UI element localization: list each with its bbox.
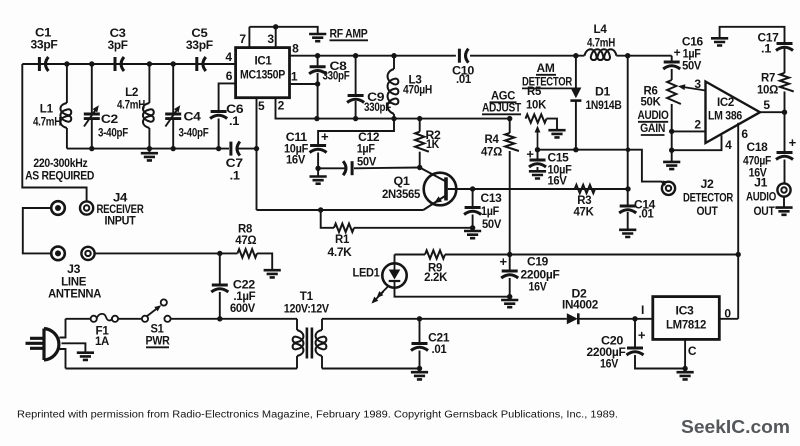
node R6-pin4 — [669, 148, 674, 153]
svg-text:C: C — [688, 344, 697, 358]
svg-text:50V: 50V — [357, 156, 377, 168]
resistor R4 — [505, 133, 519, 151]
svg-text:+: + — [321, 129, 329, 144]
svg-text:+: + — [674, 45, 681, 59]
svg-text:1A: 1A — [95, 336, 109, 348]
svg-text:MC1350P: MC1350P — [240, 70, 286, 82]
wire Q1 emitter — [423, 196, 445, 210]
capacitor C2 variable — [84, 104, 101, 127]
svg-text:C12: C12 — [358, 132, 379, 144]
wire J2 nub — [661, 181, 665, 185]
svg-text:C13: C13 — [481, 193, 502, 205]
wire R5 right — [547, 119, 558, 130]
svg-text:C4: C4 — [184, 112, 202, 124]
svg-text:3pF: 3pF — [108, 40, 128, 52]
regulator IC3 LM7812 box — [653, 297, 720, 340]
wire LED to R9 — [395, 254, 426, 256]
capacitor C17 — [776, 44, 793, 51]
wire C9 column — [355, 56, 357, 95]
connector J4 jack — [80, 201, 93, 214]
svg-text:IN4002: IN4002 — [562, 300, 598, 312]
wire F1 to S1 — [118, 318, 142, 320]
resistor R9 — [425, 250, 445, 258]
capacitor C22 — [211, 285, 228, 292]
wire pin2 path — [276, 98, 317, 119]
wire IC3 common — [684, 339, 686, 368]
svg-text:GAIN: GAIN — [640, 123, 665, 135]
svg-text:AUDIO: AUDIO — [638, 110, 669, 122]
wire C6 lead — [218, 119, 220, 149]
op-amp IC1 MC1350P box — [236, 48, 290, 98]
wire bus drop to J4 — [22, 64, 86, 201]
svg-text:LM7812: LM7812 — [666, 320, 706, 332]
node vrail-C8 — [314, 116, 319, 121]
svg-text:C6: C6 — [226, 104, 243, 116]
ground tank — [141, 153, 158, 160]
wire J1 to ground — [783, 197, 785, 208]
wire pin3 to ground — [276, 27, 318, 34]
transformer T1 secondary — [321, 319, 323, 330]
wire detector line — [538, 150, 662, 182]
svg-text:16V: 16V — [529, 282, 548, 294]
svg-text:LM 386: LM 386 — [708, 111, 742, 123]
wire plug nose to ground — [62, 343, 86, 352]
node vrail-AGC — [507, 116, 512, 121]
svg-text:1K: 1K — [426, 139, 440, 151]
wire D1 leads — [575, 56, 577, 88]
resistor R6 potentiometer — [667, 80, 681, 104]
wire V+ rail — [317, 118, 510, 120]
svg-text:2: 2 — [278, 99, 285, 113]
wire power bottom — [66, 368, 298, 370]
svg-text:50V: 50V — [682, 61, 702, 73]
ground C11 — [310, 177, 327, 184]
wire J3 to R8 — [95, 252, 220, 254]
underline GAIN — [641, 134, 665, 136]
node rail-L3 — [391, 53, 396, 58]
wire IC3 out — [719, 318, 738, 320]
svg-text:AUDIO: AUDIO — [746, 192, 776, 204]
svg-text:R3: R3 — [577, 195, 591, 207]
svg-text:R7: R7 — [761, 73, 775, 85]
connector J1 jack — [777, 183, 790, 196]
svg-text:6: 6 — [226, 69, 233, 83]
svg-text:2.2K: 2.2K — [424, 272, 448, 284]
svg-text:.1: .1 — [761, 43, 772, 55]
op-amp IC2 triangle — [706, 82, 761, 144]
svg-text:ADJUST: ADJUST — [482, 103, 521, 115]
svg-text:4: 4 — [725, 138, 732, 152]
svg-text:L2: L2 — [125, 87, 138, 99]
wire R9 to C19 — [445, 254, 510, 256]
node det-D1 — [573, 147, 578, 152]
svg-text:2N3565: 2N3565 — [382, 189, 421, 201]
capacitor C13 — [464, 208, 481, 215]
svg-text:10K: 10K — [526, 100, 547, 112]
svg-text:10Ω: 10Ω — [757, 84, 778, 96]
connector J3 plug — [51, 247, 65, 261]
capacitor C15 — [529, 160, 546, 167]
ground plug — [77, 353, 94, 360]
svg-text:C21: C21 — [428, 333, 450, 345]
svg-text:IC3: IC3 — [676, 306, 694, 318]
svg-text:1N914B: 1N914B — [586, 100, 622, 112]
underline RF AMP — [330, 39, 369, 41]
connector J4 plug — [51, 201, 65, 215]
svg-text:16V: 16V — [600, 359, 619, 371]
svg-text:C16: C16 — [682, 37, 703, 49]
svg-text:R4: R4 — [485, 134, 500, 146]
svg-text:C11: C11 — [286, 132, 308, 144]
capacitor C11 — [310, 146, 327, 153]
wire L1 leads — [66, 64, 68, 103]
resistor R5 potentiometer — [526, 114, 547, 122]
svg-text:C2: C2 — [101, 114, 118, 126]
wire C22 lead — [219, 253, 221, 284]
wire C12 line — [318, 167, 345, 169]
wire plug top riser — [60, 319, 66, 338]
svg-text:+: + — [789, 135, 797, 150]
svg-text:SeekIC.com: SeekIC.com — [681, 417, 790, 437]
wire C11 lead — [317, 153, 319, 177]
node R6-pin2 — [669, 129, 674, 134]
svg-text:J4: J4 — [113, 193, 128, 205]
svg-text:4.7mH: 4.7mH — [587, 38, 615, 50]
arrow R6 wiper to pin3 — [678, 83, 686, 90]
svg-text:33pF: 33pF — [31, 40, 58, 52]
node bus-C2 — [89, 61, 94, 66]
resistor R2 — [415, 132, 429, 152]
svg-text:C7: C7 — [226, 158, 243, 170]
resistor R1 — [334, 224, 354, 232]
ground R5 — [548, 130, 565, 137]
svg-text:ANTENNA: ANTENNA — [48, 289, 101, 301]
svg-text:2200µF: 2200µF — [587, 347, 626, 359]
node rail-D1 — [573, 53, 578, 58]
node R9-C19 — [507, 252, 512, 257]
node R2-C12-collector — [417, 165, 422, 170]
inductor L3 — [388, 69, 399, 114]
node vrail-C9 — [353, 116, 358, 121]
capacitor C19 — [501, 271, 518, 278]
capacitor C1 — [39, 57, 48, 71]
svg-text:C22: C22 — [233, 280, 255, 292]
transformer T1 primary — [296, 319, 298, 330]
ground R8 — [264, 270, 281, 277]
svg-text:47Ω: 47Ω — [481, 147, 502, 159]
node rail-L4right — [625, 53, 630, 58]
svg-text:3-40pF: 3-40pF — [98, 128, 128, 140]
svg-text:IC1: IC1 — [255, 56, 273, 68]
LED LED1 circle — [382, 263, 406, 287]
node rail-C9 — [353, 53, 358, 58]
ground C14 — [619, 230, 636, 237]
wire C18 lead — [784, 112, 786, 152]
svg-text:C19: C19 — [527, 257, 548, 269]
svg-text:D1: D1 — [595, 87, 611, 99]
wire LED bottom — [395, 288, 510, 297]
capacitor C9 — [347, 96, 364, 103]
ground C17 top — [711, 38, 728, 45]
ground RF AMP — [309, 34, 326, 41]
node base-C13 — [470, 186, 475, 191]
wire C21 lead2 — [419, 351, 421, 369]
wire L2 leads — [148, 64, 150, 103]
wire R4 lead — [509, 119, 511, 133]
node rail-C6 — [216, 146, 221, 151]
wire zobel top — [784, 92, 786, 113]
svg-text:LED1: LED1 — [353, 268, 381, 280]
ground R6 — [663, 162, 680, 169]
svg-text:OUT: OUT — [754, 206, 775, 218]
svg-text:6: 6 — [741, 127, 748, 141]
svg-text:16V: 16V — [548, 176, 568, 188]
transformer T1 core — [307, 328, 312, 359]
svg-text:3: 3 — [694, 77, 701, 91]
svg-text:L1: L1 — [40, 104, 54, 116]
wire pin6 to C6 — [219, 83, 236, 110]
underline AM — [536, 74, 556, 76]
ground IC3 — [677, 372, 694, 379]
wire pin6 vertical — [737, 123, 739, 319]
svg-text:.1µF: .1µF — [233, 291, 255, 303]
svg-text:AGC: AGC — [491, 91, 515, 103]
connector J2 jack — [662, 182, 675, 195]
wire pin7 — [248, 27, 250, 48]
node rail-C8 — [315, 53, 320, 58]
ground J1 — [775, 208, 792, 215]
node bus-L1 — [64, 61, 69, 66]
ground C13 — [464, 231, 481, 238]
svg-text:470µF: 470µF — [743, 156, 771, 168]
wire C19 leads — [509, 255, 511, 272]
svg-text:+: + — [500, 254, 508, 269]
wire gnd lead — [148, 149, 150, 154]
svg-text:C1: C1 — [35, 28, 52, 40]
wire R1 branch — [321, 210, 334, 228]
capacitor C8 — [309, 67, 326, 74]
node pin3 top — [273, 24, 278, 29]
svg-text:1µF: 1µF — [357, 144, 375, 156]
capacitor C14 — [619, 206, 636, 213]
svg-text:600V: 600V — [230, 303, 256, 315]
svg-text:S1: S1 — [151, 324, 165, 336]
svg-text:DETECTOR: DETECTOR — [522, 77, 573, 89]
ground C15 — [529, 171, 546, 178]
transistor Q1 base bar — [444, 177, 448, 200]
svg-text:.01: .01 — [456, 74, 472, 86]
node J3line-C22 — [217, 251, 222, 256]
arrow LED emit 1 — [378, 286, 389, 297]
inductor L1 — [60, 103, 71, 128]
wire pin5 out — [760, 111, 785, 113]
svg-text:+: + — [526, 146, 534, 161]
svg-text:2200µF: 2200µF — [521, 270, 560, 282]
svg-text:R8: R8 — [238, 224, 253, 236]
ground secondary — [411, 372, 428, 379]
wire S1 to T1 — [171, 318, 297, 320]
inductor L4 — [584, 49, 616, 60]
wire C16 to R6 — [671, 69, 673, 80]
wire pin5 vertical — [256, 98, 258, 210]
capacitor C21 — [411, 344, 428, 351]
wire R4 to C19 — [509, 151, 511, 255]
svg-text:AS REQUIRED: AS REQUIRED — [25, 171, 94, 183]
node rail-C4 — [171, 146, 176, 151]
svg-text:.01: .01 — [432, 344, 448, 356]
svg-text:8: 8 — [292, 42, 299, 56]
wire tank bottom rail — [67, 148, 229, 150]
wire x628 column — [627, 56, 629, 205]
capacitor C7 — [231, 142, 240, 156]
svg-text:AM: AM — [537, 63, 555, 75]
svg-text:4.7mH: 4.7mH — [33, 117, 61, 129]
capacitor C16 — [663, 62, 680, 69]
transistor Q1 circle — [424, 173, 457, 206]
svg-text:J2: J2 — [701, 179, 714, 191]
node C19-LED — [507, 294, 512, 299]
node pin1-C8 — [315, 81, 320, 86]
wire pin2 stub — [672, 130, 706, 132]
capacitor C3 — [115, 57, 124, 71]
svg-text:C15: C15 — [548, 153, 570, 165]
arrow LED emit 2 — [373, 292, 384, 303]
wire power top — [66, 318, 91, 320]
node rail-pin5 — [254, 146, 259, 151]
node power-C22 — [217, 316, 222, 321]
wire plug bracket — [23, 208, 51, 253]
svg-text:50K: 50K — [641, 97, 662, 109]
node vrail-R2 — [417, 116, 422, 121]
svg-text:1: 1 — [291, 70, 298, 84]
svg-text:.1: .1 — [230, 170, 241, 182]
node rail-C20 — [632, 316, 637, 321]
svg-text:I: I — [641, 303, 644, 317]
wire L3 column — [393, 56, 395, 69]
capacitor C5 — [197, 57, 206, 71]
node 12V-pin6 — [736, 252, 741, 257]
node wiper-C15 — [535, 147, 540, 152]
svg-text:47K: 47K — [574, 207, 595, 219]
svg-text:J1: J1 — [754, 178, 768, 190]
diode D1 — [570, 88, 581, 101]
wire plug bottom riser — [60, 349, 66, 369]
wire secondary bottom rail — [322, 368, 420, 370]
node rail-C21 — [417, 316, 422, 321]
svg-text:5: 5 — [763, 98, 770, 112]
wire pin3 stub — [683, 87, 706, 91]
svg-text:33pF: 33pF — [186, 40, 213, 52]
svg-text:1µF: 1µF — [683, 49, 701, 61]
underline AGC — [490, 101, 517, 103]
svg-text:1µF: 1µF — [481, 206, 499, 218]
svg-text:4.7mH: 4.7mH — [117, 100, 145, 112]
wire pin1 — [290, 83, 318, 85]
node rail-L2 — [147, 146, 152, 151]
node bus-C4 — [171, 61, 176, 66]
wire Q1 collector — [420, 168, 445, 182]
wire RF rail — [290, 55, 456, 57]
svg-text:+: + — [638, 328, 646, 343]
wire 12V feed to C19 — [510, 254, 739, 256]
svg-text:50V: 50V — [482, 219, 502, 231]
node bottomrail-C21 — [417, 366, 422, 371]
svg-text:Reprinted with permission from: Reprinted with permission from Radio-Ele… — [17, 410, 618, 421]
node C13-R1 — [470, 225, 475, 230]
svg-text:3: 3 — [267, 32, 274, 46]
svg-text:LINE: LINE — [61, 276, 87, 288]
capacitor C20 — [627, 348, 644, 355]
wire secondary top rail — [322, 318, 567, 320]
wire pin5 run — [257, 209, 424, 211]
fuse F1 — [91, 314, 119, 322]
arrow Q1 emitter — [432, 196, 442, 205]
svg-text:.1: .1 — [229, 116, 240, 128]
svg-text:C20: C20 — [601, 336, 623, 348]
underline PWR — [146, 346, 169, 348]
svg-text:IC2: IC2 — [717, 97, 734, 109]
wire base line — [448, 188, 628, 190]
wire R6 bottom — [671, 104, 673, 162]
svg-text:330pF: 330pF — [323, 71, 350, 83]
arrow R5 wiper — [535, 126, 541, 133]
svg-text:4.7K: 4.7K — [328, 247, 353, 259]
svg-text:3-40pF: 3-40pF — [179, 128, 209, 140]
wire pin3 top — [249, 27, 275, 48]
node vrail-L3 — [391, 116, 396, 121]
node bus-L2 — [147, 61, 152, 66]
wire C2 leads — [91, 64, 93, 113]
wire C16 corner — [671, 56, 673, 62]
node rail-C2 — [89, 146, 94, 151]
underline DETECTOR — [522, 87, 572, 89]
svg-text:INPUT: INPUT — [105, 216, 136, 228]
node C20-common — [682, 366, 687, 371]
capacitor C4 variable — [165, 104, 182, 127]
ground C19 — [501, 300, 518, 307]
capacitor C10 — [459, 49, 468, 63]
svg-text:470µH: 470µH — [403, 85, 432, 97]
svg-text:Q1: Q1 — [394, 176, 411, 188]
wire R8 leads — [220, 252, 238, 254]
wire D2 to IC3 — [578, 318, 653, 320]
connector J3 jack — [81, 247, 94, 260]
wire C15 leads — [537, 150, 539, 160]
wire C4 leads — [172, 64, 174, 113]
wire C18 to J1 — [784, 160, 786, 184]
wire C22 lead2 — [219, 292, 221, 319]
wire R2 leads — [419, 119, 421, 132]
svg-text:OUT: OUT — [697, 206, 718, 218]
LED LED1 symbol — [389, 263, 401, 287]
underline ADJUST — [482, 113, 521, 115]
svg-text:T1: T1 — [300, 291, 314, 303]
svg-text:PWR: PWR — [146, 336, 171, 348]
resistor R3 — [575, 185, 595, 193]
wire C20 leads — [634, 319, 636, 348]
wire C21 lead — [419, 319, 421, 343]
node C11-C12 — [315, 166, 320, 171]
wire C8 column — [317, 56, 319, 66]
capacitor C18 — [776, 153, 793, 160]
resistor R8 — [238, 249, 258, 257]
wire C11 feed — [318, 119, 394, 144]
svg-text:L4: L4 — [594, 24, 608, 36]
svg-text:7: 7 — [239, 32, 246, 46]
svg-text:DETECTOR: DETECTOR — [683, 193, 734, 205]
node det-x628 — [626, 147, 631, 152]
node pin5-R1 — [318, 207, 323, 212]
